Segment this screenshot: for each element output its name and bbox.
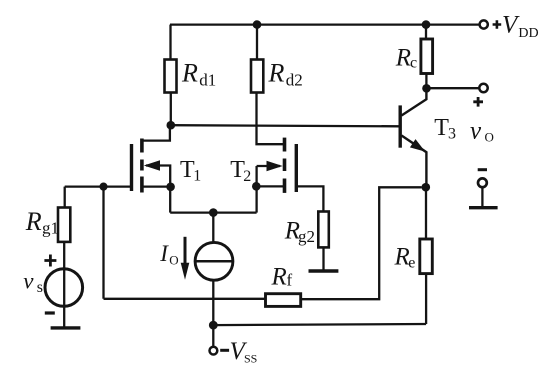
svg-text:O: O: [169, 253, 178, 268]
transistor T3 collector stroke: [402, 88, 427, 115]
svg-text:d2: d2: [286, 70, 303, 89]
wire top supply rail: [170, 23, 480, 25]
minus sign below vO: [478, 168, 487, 171]
svg-text:d1: d1: [199, 70, 216, 89]
svg-text:e: e: [408, 255, 415, 272]
svg-text:I: I: [159, 241, 169, 266]
terminal output + (open circle): [479, 84, 487, 92]
wire T1 gate lead: [65, 185, 131, 187]
wire T2 body lead: [257, 166, 280, 186]
svg-text:3: 3: [448, 126, 456, 143]
current IO arrow: [184, 237, 187, 264]
svg-text:R: R: [271, 264, 287, 291]
svg-text:g2: g2: [298, 227, 315, 246]
transistor T1 body arrow (points left): [144, 160, 160, 171]
resistor Rg2: [318, 212, 329, 248]
transistor T3 emitter stroke: [402, 136, 427, 188]
resistor Rg1: [58, 208, 70, 242]
wire feedback left riser: [102, 187, 104, 299]
node T3 emitter (dot): [422, 183, 431, 192]
svg-text:R: R: [395, 44, 411, 71]
node bottom rail junction (dot): [209, 321, 218, 330]
wire emitter down to Re: [425, 187, 427, 239]
plus sign of vs: [44, 255, 56, 267]
resistor Rc: [421, 39, 433, 74]
wire feedback bottom left segment: [104, 298, 266, 300]
svg-text:v: v: [23, 268, 34, 293]
wire vs top corner riser: [64, 187, 66, 208]
wire T1 source down to tail: [169, 187, 171, 213]
wire current source bottom down to -Vss: [212, 280, 214, 347]
transistor T3 base bar: [399, 105, 402, 147]
wire base wire from T1 drain node to T3 base: [171, 125, 399, 126]
wire Rc top riser: [425, 25, 427, 39]
plus sign above vO: [473, 97, 483, 107]
wire T2 source lead: [256, 185, 283, 187]
wire Rd1 bottom to drain node: [170, 93, 172, 126]
ground below vs: [51, 326, 81, 329]
wire Rd2 top riser: [256, 25, 258, 60]
node collector/output (dot): [422, 84, 431, 93]
svg-text:s: s: [37, 279, 43, 296]
wire T2 gate lead: [298, 186, 324, 211]
wire bottom rail: [213, 324, 426, 325]
node gate-feedback junction (dot): [99, 183, 107, 191]
node Rc top (dot): [422, 20, 431, 29]
current source IO circle: [195, 242, 233, 280]
node T2 source/body (dot): [252, 182, 261, 191]
wire Rg2 bottom to ground: [322, 247, 324, 269]
transistor T1 channel middle segment: [140, 160, 144, 171]
transistor T2 gate bar: [295, 144, 298, 192]
svg-text:T: T: [434, 115, 449, 141]
ground below Rg2: [309, 269, 339, 272]
wire output - stem: [481, 187, 483, 207]
svg-text:c: c: [410, 55, 417, 72]
transistor T3 emitter arrow: [410, 139, 425, 152]
resistor Rf: [266, 294, 301, 307]
resistor Rd2: [251, 60, 263, 93]
transistor T2 channel top segment: [283, 138, 287, 152]
wire Rd2 bottom to T2 drain: [257, 93, 284, 145]
wire Rc bottom to collector node: [425, 74, 427, 89]
terminal -Vss (open circle): [210, 347, 218, 355]
node Rd2 top (dot): [253, 20, 262, 29]
svg-text:g1: g1: [42, 219, 59, 238]
svg-text:R: R: [268, 59, 285, 88]
minus sign of vs: [45, 311, 55, 314]
transistor T2 channel middle segment: [283, 159, 287, 172]
transistor T1 channel bottom segment: [140, 177, 144, 193]
node T1 source/body (dot): [166, 183, 175, 192]
wire T2 source down to tail: [255, 186, 257, 212]
node T1 drain (dot): [167, 121, 176, 130]
wire Rg1 bottom through source vs to ground: [63, 242, 65, 327]
terminal output - (open circle with ground): [478, 178, 487, 187]
svg-text:O: O: [485, 130, 494, 145]
minus sign of -Vss: [220, 349, 229, 352]
transistor T1 gate bar: [130, 144, 133, 191]
plus sign of +VDD: [493, 20, 502, 29]
current source IO chord: [195, 260, 233, 263]
wire T1 drain lead: [143, 125, 170, 140]
resistor Re: [420, 239, 433, 274]
transistor T2 body arrow (points right): [267, 161, 283, 172]
wire Rd1 top riser: [169, 25, 171, 60]
transistor T2 channel bottom segment: [283, 179, 287, 193]
svg-text:2: 2: [243, 168, 251, 185]
svg-text:f: f: [287, 271, 293, 290]
svg-text:SS: SS: [244, 352, 257, 366]
wire output to terminal: [427, 87, 480, 89]
wire feedback right segment to emitter: [301, 187, 422, 299]
wire Re bottom to bottom rail: [425, 274, 427, 324]
ground bar below output -: [469, 206, 498, 209]
resistor Rd1: [165, 60, 177, 93]
wire tail down to current source: [212, 213, 214, 243]
terminal +VDD (open circle): [480, 20, 488, 28]
svg-text:R: R: [25, 207, 42, 236]
source vs circle: [45, 269, 83, 307]
wire T1 body lead: [146, 166, 170, 187]
svg-text:1: 1: [193, 168, 201, 185]
svg-text:DD: DD: [518, 26, 538, 41]
wire tail joining sources: [170, 211, 256, 213]
svg-text:v: v: [470, 118, 482, 145]
svg-text:R: R: [181, 59, 198, 88]
transistor T1 channel top segment: [140, 139, 144, 153]
wire T1 source lead: [143, 185, 171, 187]
node tail junction (dot): [209, 208, 218, 217]
